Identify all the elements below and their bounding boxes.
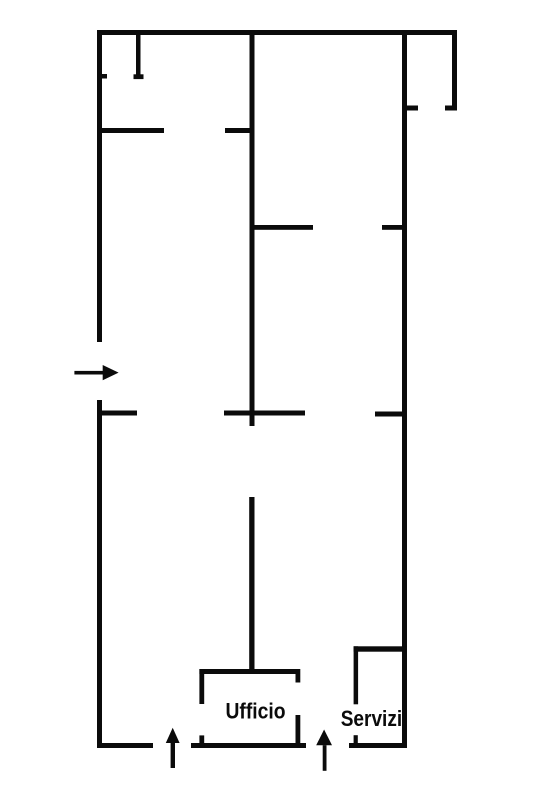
upper partition wall right segment	[225, 128, 253, 133]
ufficio left wall	[199, 669, 204, 704]
middle partition wall left tick	[97, 411, 137, 416]
middle partition wall center segment	[224, 411, 305, 416]
top-right closet right wall	[452, 30, 457, 110]
ufficio top wall	[199, 669, 299, 674]
ufficio right wall lower segment	[296, 715, 301, 748]
bottom exterior wall segment 1	[97, 743, 153, 748]
ufficio partition wall vertical	[249, 497, 254, 674]
servizi left wall	[354, 646, 359, 704]
top-left door jamb T-foot	[134, 74, 144, 79]
bottom entrance arrow 1 shaft	[171, 743, 175, 768]
upper partition wall left segment	[97, 128, 164, 133]
servizi left wall bottom stub	[354, 735, 358, 748]
right-room partition wall right segment	[382, 225, 405, 230]
entrance arrow shaft (left, pointing right)	[74, 371, 104, 375]
top-right closet door jamb right	[445, 106, 457, 111]
top exterior wall	[97, 30, 457, 35]
top-left door jamb on left wall	[97, 74, 107, 79]
ufficio right wall top stub	[296, 669, 301, 683]
top-left door partition stub	[136, 33, 141, 75]
bottom entrance arrow 2 shaft	[323, 745, 327, 771]
svg-text:Ufficio: Ufficio	[226, 698, 286, 723]
bottom exterior wall segment 3	[349, 743, 407, 748]
top-right closet door jamb left	[407, 106, 418, 111]
bottom entrance arrow 2 head (pointing up)	[316, 730, 332, 746]
svg-text:Servizi: Servizi	[341, 706, 403, 731]
servizi top wall	[354, 646, 407, 651]
central vertical wall	[250, 33, 255, 426]
bottom exterior wall segment 2	[191, 743, 306, 748]
left exterior wall lower segment	[97, 400, 102, 748]
right-room partition wall left segment	[252, 225, 313, 230]
left exterior wall upper segment	[97, 30, 102, 342]
bottom entrance arrow 1 head (pointing up)	[166, 728, 180, 743]
right exterior wall	[402, 30, 407, 748]
middle partition wall right segment	[375, 412, 403, 417]
entrance arrow head (left, pointing right)	[103, 365, 119, 380]
ufficio left wall bottom stub	[199, 735, 204, 748]
